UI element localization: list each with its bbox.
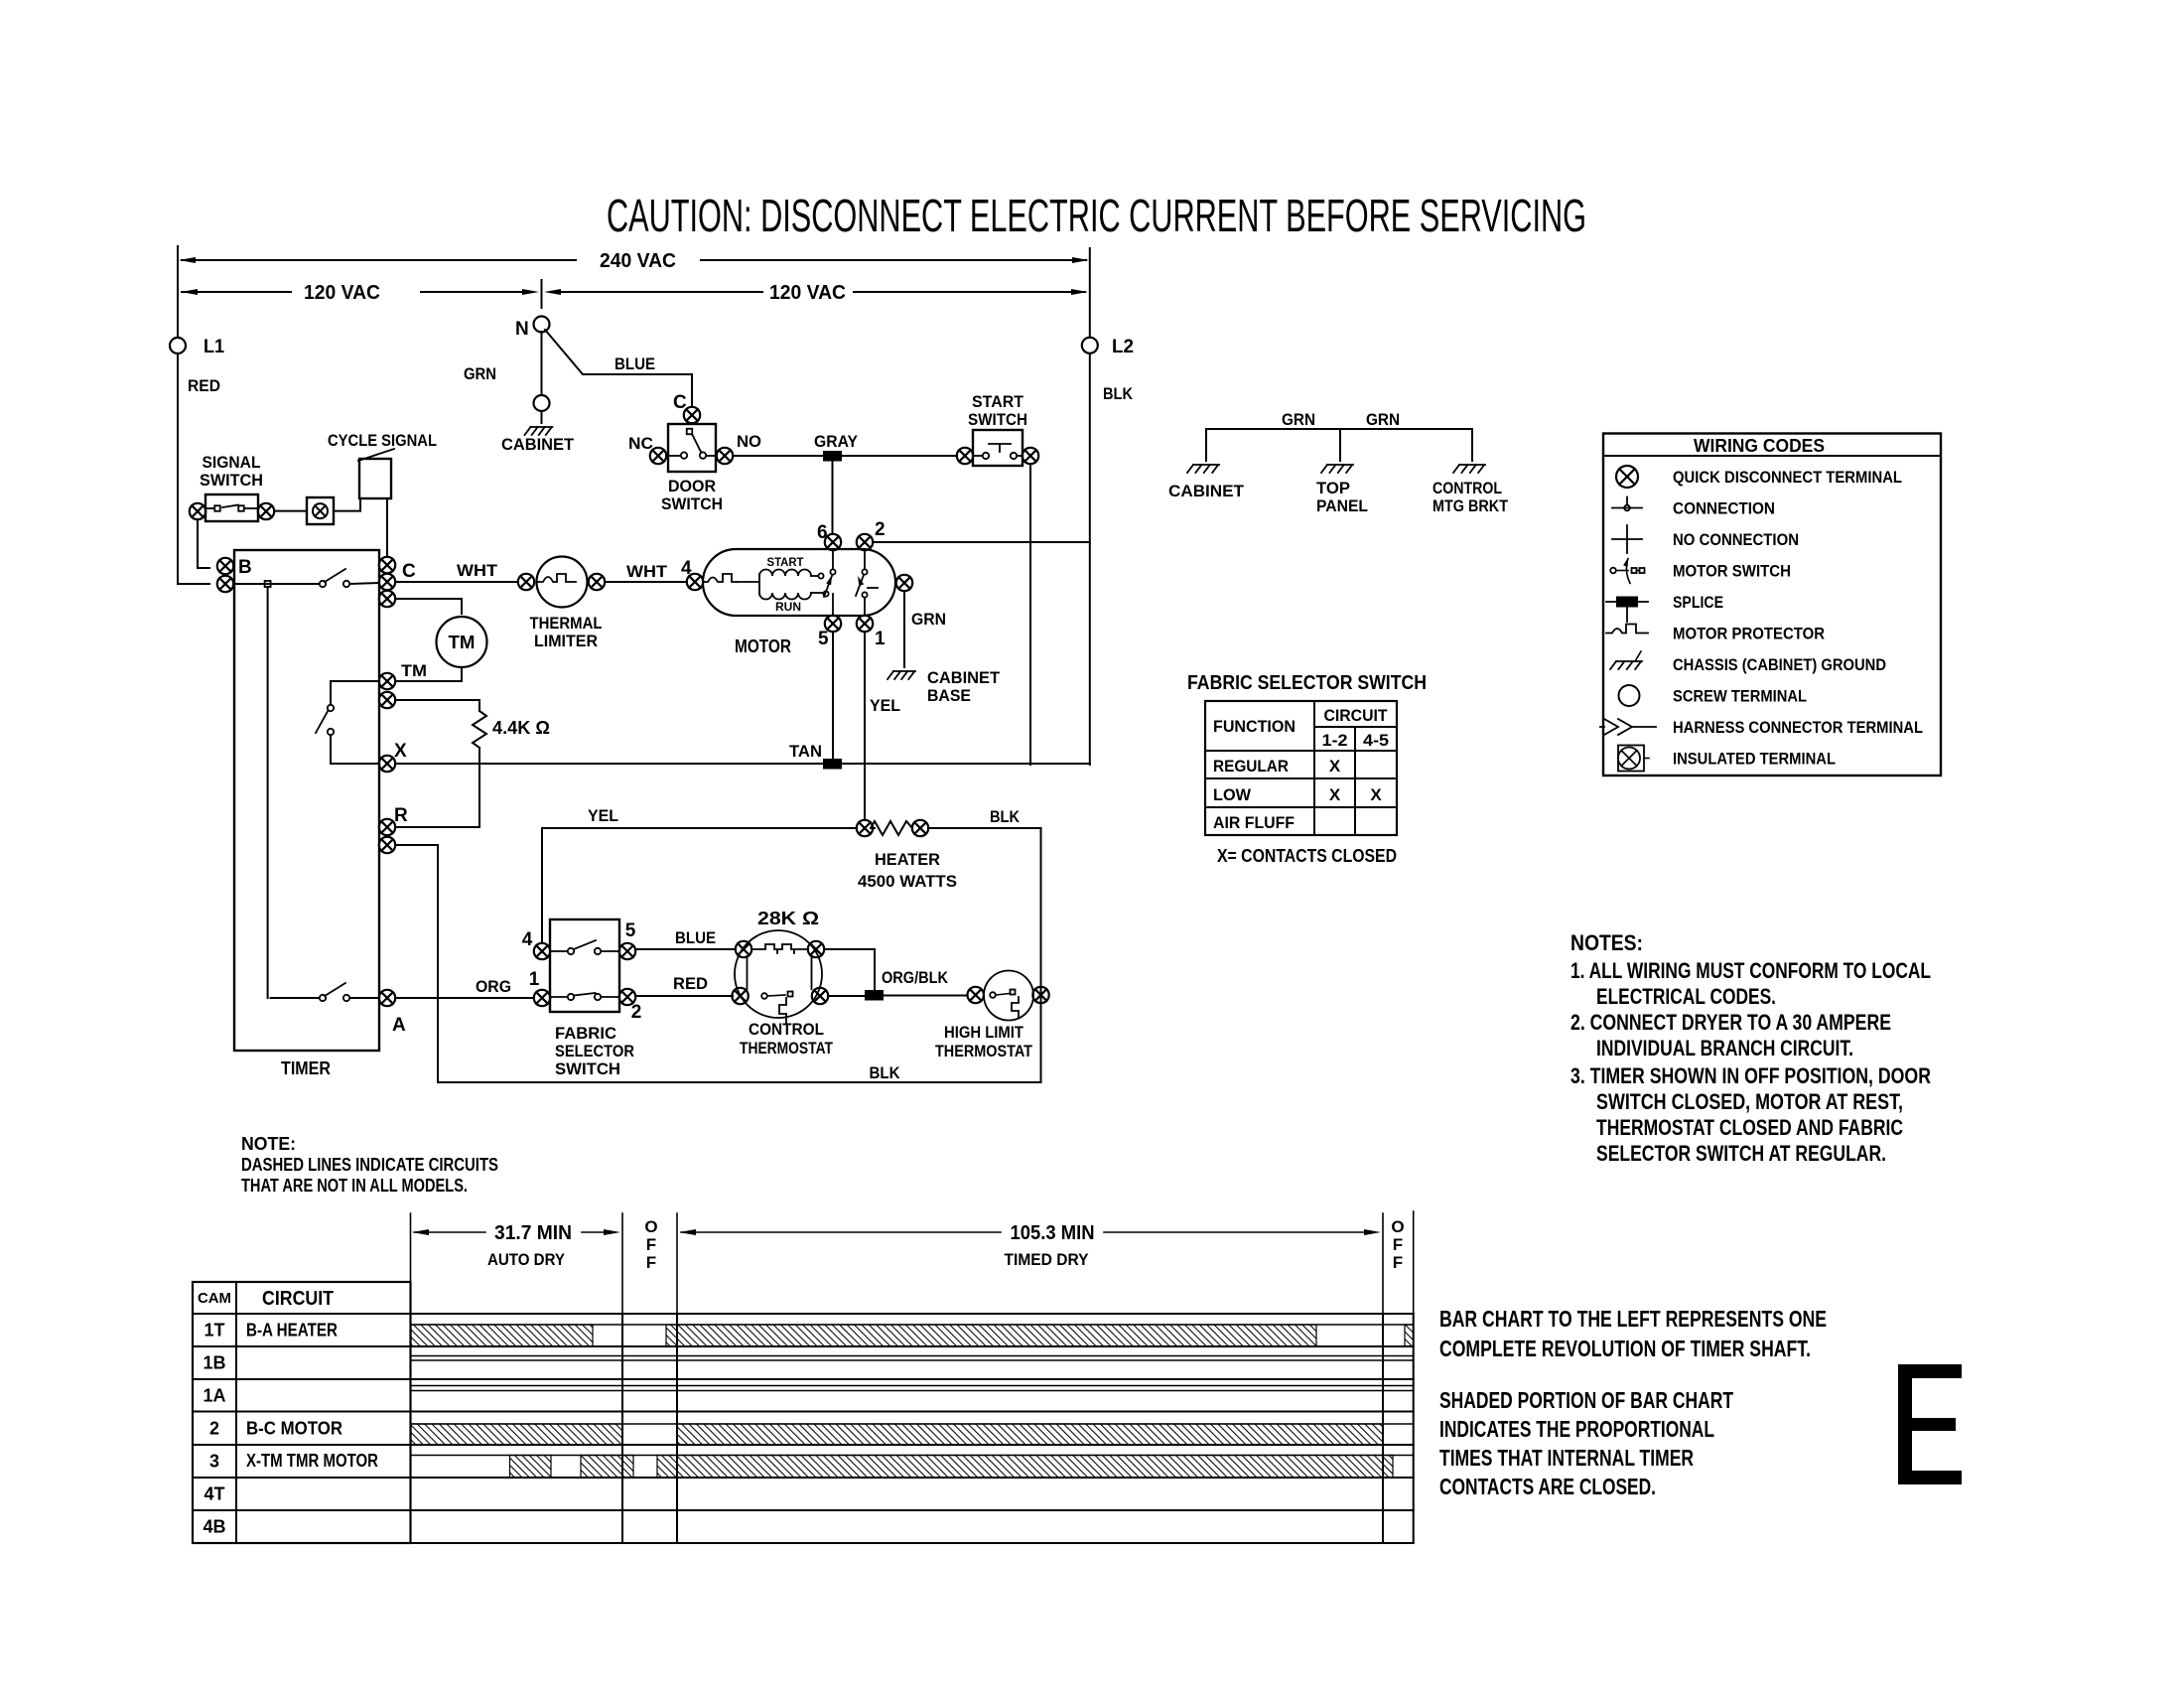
cabinet chassis ground xyxy=(501,411,575,454)
legend screw terminal xyxy=(1619,685,1808,706)
terminal B top xyxy=(217,558,233,574)
svg-text:PANEL: PANEL xyxy=(1316,496,1368,515)
wire YEL heater to fabric selector 4 xyxy=(542,806,857,943)
terminal C bottom xyxy=(379,591,395,607)
svg-text:SWITCH: SWITCH xyxy=(968,410,1027,429)
svg-text:CABINET: CABINET xyxy=(1168,482,1245,500)
legend no connection xyxy=(1612,525,1799,553)
svg-text:1T: 1T xyxy=(204,1321,224,1340)
wire signal switch to B xyxy=(198,519,209,568)
terminal motor 2 xyxy=(857,519,886,550)
svg-text:START: START xyxy=(767,555,805,569)
bar 2 motor lane xyxy=(411,1424,1414,1445)
terminal R top xyxy=(379,805,408,835)
svg-text:B: B xyxy=(238,557,252,578)
svg-text:MOTOR SWITCH: MOTOR SWITCH xyxy=(1673,562,1791,581)
terminal fabric 4 xyxy=(522,929,550,959)
wire heater to right BLK xyxy=(928,807,1041,828)
wire L2 to motor terminal 2 xyxy=(873,541,1090,543)
wire right vertical to high limit xyxy=(1040,828,1042,1082)
svg-text:HARNESS CONNECTOR TERMINAL: HARNESS CONNECTOR TERMINAL xyxy=(1673,718,1923,737)
svg-text:CAUTION: DISCONNECT ELECTRIC C: CAUTION: DISCONNECT ELECTRIC CURRENT BEF… xyxy=(607,190,1586,241)
svg-text:BLK: BLK xyxy=(1103,384,1134,403)
svg-text:O: O xyxy=(644,1217,657,1236)
terminal NO door switch xyxy=(717,432,761,464)
svg-text:5: 5 xyxy=(818,629,829,649)
splice GRAY xyxy=(823,451,842,462)
svg-text:L2: L2 xyxy=(1112,337,1134,357)
svg-text:CABINET: CABINET xyxy=(501,435,575,454)
terminal signal switch left xyxy=(190,503,205,519)
label OFF 2 xyxy=(1391,1217,1404,1272)
wire X to start switch and L2 TAN xyxy=(395,742,1090,764)
svg-text:5: 5 xyxy=(625,920,636,941)
svg-text:SPLICE: SPLICE xyxy=(1673,593,1723,612)
svg-text:TIMER: TIMER xyxy=(281,1058,331,1078)
terminal X xyxy=(379,741,407,772)
wire TM motor to TM terminal xyxy=(395,667,462,681)
fabric selector table xyxy=(1205,701,1397,835)
svg-text:LOW: LOW xyxy=(1213,785,1252,804)
svg-text:CABINET: CABINET xyxy=(927,668,1001,687)
svg-text:MTG BRKT: MTG BRKT xyxy=(1433,496,1509,515)
motor start winding xyxy=(759,555,811,576)
terminal fabric 1 xyxy=(529,969,550,1006)
timer box xyxy=(234,550,379,1051)
terminal control thermostat top left xyxy=(736,941,751,957)
terminal start switch left xyxy=(957,448,973,464)
cam table grid xyxy=(193,1282,1414,1543)
svg-text:THAT ARE NOT IN ALL MODELS.: THAT ARE NOT IN ALL MODELS. xyxy=(241,1176,468,1196)
terminal B bottom xyxy=(217,557,252,592)
svg-text:THERMOSTAT CLOSED AND FABRIC: THERMOSTAT CLOSED AND FABRIC xyxy=(1596,1115,1903,1140)
svg-text:RED: RED xyxy=(673,974,708,993)
terminal start switch right xyxy=(1023,448,1038,464)
terminal fabric 5 xyxy=(619,920,636,959)
svg-text:INSULATED TERMINAL: INSULATED TERMINAL xyxy=(1673,750,1836,769)
svg-text:THERMOSTAT: THERMOSTAT xyxy=(740,1039,833,1058)
svg-text:MOTOR PROTECTOR: MOTOR PROTECTOR xyxy=(1673,625,1825,643)
svg-text:CYCLE SIGNAL: CYCLE SIGNAL xyxy=(328,431,437,450)
wire timer B internal xyxy=(233,583,319,585)
svg-text:TM: TM xyxy=(401,661,427,680)
terminal thermal limiter left xyxy=(518,574,534,590)
svg-text:ELECTRICAL CODES.: ELECTRICAL CODES. xyxy=(1596,984,1776,1009)
svg-text:START: START xyxy=(972,392,1024,411)
legend motor protector xyxy=(1606,625,1825,643)
svg-text:1: 1 xyxy=(875,629,886,649)
105.3 MIN dimension xyxy=(679,1222,1381,1269)
svg-text:HEATER: HEATER xyxy=(875,850,940,869)
heater R2 4500W xyxy=(858,821,957,891)
svg-text:FABRIC: FABRIC xyxy=(555,1024,616,1043)
wire splice down to motor terminal 6 xyxy=(832,461,834,534)
svg-text:SWITCH CLOSED, MOTOR AT REST,: SWITCH CLOSED, MOTOR AT REST, xyxy=(1596,1089,1903,1114)
motor run winding xyxy=(737,574,811,614)
terminal high limit left xyxy=(968,987,984,1003)
svg-text:NO CONNECTION: NO CONNECTION xyxy=(1673,530,1799,549)
terminal L2 xyxy=(1082,337,1134,357)
wire C bottom to TM motor xyxy=(395,599,462,614)
bar 1T heater lane xyxy=(411,1325,1414,1346)
svg-text:SCREW TERMINAL: SCREW TERMINAL xyxy=(1673,687,1807,706)
svg-text:NC: NC xyxy=(628,434,653,453)
svg-text:BLUE: BLUE xyxy=(675,928,716,947)
svg-text:3: 3 xyxy=(209,1452,219,1472)
svg-text:CAM: CAM xyxy=(198,1290,231,1307)
terminal NC door switch xyxy=(628,434,666,464)
wire BLUE fabric 5 to control thermostat xyxy=(635,928,736,949)
wire motor 1 down to heater YEL xyxy=(865,632,900,820)
legend harness connector terminal xyxy=(1600,718,1923,737)
svg-text:INDIVIDUAL BRANCH CIRCUIT.: INDIVIDUAL BRANCH CIRCUIT. xyxy=(1596,1036,1853,1060)
svg-text:TIMED DRY: TIMED DRY xyxy=(1005,1250,1090,1269)
wire L1 vertical xyxy=(178,246,209,584)
ground control mtg brkt xyxy=(1433,429,1509,515)
svg-text:X-TM TMR MOTOR: X-TM TMR MOTOR xyxy=(246,1451,378,1471)
terminal C middle xyxy=(379,561,416,590)
wire NO to start switch GRAY xyxy=(733,432,957,456)
svg-text:4-5: 4-5 xyxy=(1363,731,1389,750)
svg-text:YEL: YEL xyxy=(588,806,618,825)
svg-text:2. CONNECT DRYER TO A 30 AMPER: 2. CONNECT DRYER TO A 30 AMPERE xyxy=(1570,1010,1891,1035)
svg-text:6: 6 xyxy=(817,522,828,543)
svg-text:AIR FLUFF: AIR FLUFF xyxy=(1213,813,1295,832)
wire GRN to cabinet base xyxy=(903,591,905,667)
node connection square timer xyxy=(265,581,271,587)
svg-text:SWITCH: SWITCH xyxy=(200,471,263,490)
svg-text:GRN: GRN xyxy=(464,364,496,383)
svg-text:TIMES THAT INTERNAL TIMER: TIMES THAT INTERNAL TIMER xyxy=(1439,1445,1694,1471)
svg-text:MOTOR: MOTOR xyxy=(735,636,791,656)
motor switch run xyxy=(811,591,833,616)
svg-text:SELECTOR SWITCH AT REGULAR.: SELECTOR SWITCH AT REGULAR. xyxy=(1596,1141,1886,1166)
svg-text:BLUE: BLUE xyxy=(614,354,655,373)
svg-text:4.4K Ω: 4.4K Ω xyxy=(492,718,550,738)
screw terminal cabinet xyxy=(534,395,550,411)
svg-text:RED: RED xyxy=(188,376,220,395)
svg-text:ORG: ORG xyxy=(476,977,511,996)
svg-text:A: A xyxy=(392,1015,406,1036)
terminal A xyxy=(379,990,406,1036)
svg-text:B-A HEATER: B-A HEATER xyxy=(246,1321,338,1340)
svg-text:BLK: BLK xyxy=(990,807,1021,826)
svg-text:CONTROL: CONTROL xyxy=(749,1020,824,1039)
ground top panel xyxy=(1316,429,1368,515)
signal switch S1 xyxy=(205,494,258,521)
svg-text:DOOR: DOOR xyxy=(668,477,716,495)
svg-text:SELECTOR: SELECTOR xyxy=(555,1042,634,1060)
svg-text:TOP: TOP xyxy=(1316,479,1350,497)
svg-text:CONNECTION: CONNECTION xyxy=(1673,499,1775,518)
240 VAC dimension line xyxy=(179,250,1089,272)
svg-text:BASE: BASE xyxy=(927,686,971,705)
terminal motor 5 xyxy=(818,616,841,649)
start switch S2 xyxy=(973,430,1023,466)
legend quick disconnect terminal xyxy=(1616,466,1902,488)
motor switch 2 xyxy=(856,550,878,616)
svg-text:X: X xyxy=(1329,785,1341,804)
svg-text:RUN: RUN xyxy=(775,600,801,614)
bar 1A lane xyxy=(411,1386,1414,1391)
svg-text:WHT: WHT xyxy=(626,562,668,581)
timer motor TM xyxy=(437,617,487,667)
svg-text:INDICATES THE PROPORTIONAL: INDICATES THE PROPORTIONAL xyxy=(1439,1416,1714,1442)
svg-text:AUTO DRY: AUTO DRY xyxy=(487,1250,566,1269)
thermal limiter xyxy=(530,557,603,651)
svg-text:SWITCH: SWITCH xyxy=(555,1059,620,1078)
svg-text:4500 WATTS: 4500 WATTS xyxy=(858,872,957,891)
svg-text:HIGH LIMIT: HIGH LIMIT xyxy=(944,1023,1024,1042)
legend splice xyxy=(1606,593,1723,622)
terminal C top xyxy=(379,557,395,573)
svg-text:1. ALL WIRING MUST CONFORM TO: 1. ALL WIRING MUST CONFORM TO LOCAL xyxy=(1570,958,1931,983)
svg-text:SHADED PORTION OF BAR CHART: SHADED PORTION OF BAR CHART xyxy=(1439,1387,1733,1413)
timer switch 2 X-TM xyxy=(316,681,379,764)
svg-text:R: R xyxy=(394,805,408,826)
svg-text:X: X xyxy=(1329,757,1341,776)
wire bottom BLK xyxy=(438,1063,1041,1082)
terminal control thermostat bottom left xyxy=(732,988,748,1004)
terminal C door switch xyxy=(673,392,700,423)
svg-text:2: 2 xyxy=(209,1419,219,1439)
terminal motor 6 xyxy=(817,522,841,550)
terminal thermal limiter right xyxy=(589,574,605,590)
svg-text:CONTROL: CONTROL xyxy=(1433,479,1502,497)
svg-text:CHASSIS (CABINET) GROUND: CHASSIS (CABINET) GROUND xyxy=(1673,655,1886,674)
svg-text:GRN: GRN xyxy=(1282,410,1315,429)
legend insulated terminal xyxy=(1618,746,1836,772)
svg-text:CONTACTS ARE CLOSED.: CONTACTS ARE CLOSED. xyxy=(1439,1474,1656,1499)
wire start switch down to X-TM net xyxy=(1029,464,1031,765)
terminal high limit right xyxy=(1032,987,1048,1003)
svg-text:NO: NO xyxy=(737,432,761,451)
svg-text:THERMAL: THERMAL xyxy=(530,614,603,633)
wire RED fabric 2 to control thermostat xyxy=(635,974,733,996)
svg-text:GRN: GRN xyxy=(911,610,946,629)
svg-text:WIRING CODES: WIRING CODES xyxy=(1694,436,1825,456)
svg-text:REGULAR: REGULAR xyxy=(1213,757,1289,776)
terminal R bottom xyxy=(379,837,395,853)
terminal motor 1 xyxy=(857,616,886,649)
svg-text:2: 2 xyxy=(875,519,886,540)
wire motor 5 down to TAN splice xyxy=(832,632,834,759)
control thermostat xyxy=(735,909,833,1058)
svg-text:ORG/BLK: ORG/BLK xyxy=(882,968,949,987)
svg-text:N: N xyxy=(515,319,529,340)
high limit thermostat xyxy=(935,971,1033,1061)
wire signal switch to insulated terminal xyxy=(274,510,307,512)
svg-text:FABRIC SELECTOR SWITCH: FABRIC SELECTOR SWITCH xyxy=(1187,672,1427,694)
svg-text:L1: L1 xyxy=(204,337,224,357)
svg-text:4: 4 xyxy=(522,929,533,950)
terminal fabric 2 xyxy=(619,989,641,1023)
wire GRN grounds bus xyxy=(1206,410,1472,429)
motor M1 outline xyxy=(703,549,895,616)
svg-text:1: 1 xyxy=(529,969,540,990)
svg-text:240 VAC: 240 VAC xyxy=(600,250,676,272)
terminal TM bottom xyxy=(379,692,395,708)
wire TM bottom to resistor xyxy=(395,699,479,701)
timer switch 3 B-A xyxy=(271,983,378,1001)
svg-text:4B: 4B xyxy=(203,1517,225,1537)
svg-text:1-2: 1-2 xyxy=(1322,731,1348,750)
door switch U3 xyxy=(668,424,716,472)
31.7 MIN dimension xyxy=(412,1222,620,1269)
svg-text:BAR CHART TO THE LEFT REPRESEN: BAR CHART TO THE LEFT REPRESENTS ONE xyxy=(1439,1306,1827,1332)
svg-text:LIMITER: LIMITER xyxy=(534,632,598,650)
wire insulated terminal to cycle signal xyxy=(334,498,360,511)
motor protector symbol xyxy=(703,574,737,582)
wire splice to high limit xyxy=(884,995,967,997)
wire ORG A to fabric selector xyxy=(395,977,534,998)
svg-text:F: F xyxy=(1393,1235,1403,1254)
svg-text:CIRCUIT: CIRCUIT xyxy=(1324,706,1389,725)
legend motor switch xyxy=(1610,558,1791,584)
notes text xyxy=(1570,930,1931,1166)
svg-text:BLK: BLK xyxy=(870,1063,901,1082)
fabric selector switch S3 xyxy=(550,919,619,1012)
svg-text:TAN: TAN xyxy=(789,742,822,761)
svg-text:X= CONTACTS CLOSED: X= CONTACTS CLOSED xyxy=(1217,846,1397,866)
terminal TM top xyxy=(379,661,427,689)
terminal motor 4 xyxy=(687,574,703,590)
timer switch 1 B-C xyxy=(320,569,378,587)
wire L2 vertical BLK xyxy=(1089,248,1091,765)
svg-text:COMPLETE REVOLUTION OF TIMER S: COMPLETE REVOLUTION OF TIMER SHAFT. xyxy=(1439,1336,1811,1361)
svg-text:QUICK DISCONNECT TERMINAL: QUICK DISCONNECT TERMINAL xyxy=(1673,468,1902,487)
svg-text:3. TIMER SHOWN IN OFF POSITION: 3. TIMER SHOWN IN OFF POSITION, DOOR xyxy=(1570,1063,1931,1088)
splice ORG/BLK xyxy=(865,990,884,1001)
svg-text:DASHED LINES INDICATE CIRCUITS: DASHED LINES INDICATE CIRCUITS xyxy=(241,1155,498,1175)
svg-text:FUNCTION: FUNCTION xyxy=(1213,717,1296,736)
svg-text:F: F xyxy=(1393,1253,1403,1272)
svg-text:C: C xyxy=(673,392,687,413)
resistor 4.4K xyxy=(473,700,550,827)
svg-text:F: F xyxy=(646,1253,656,1272)
svg-text:X: X xyxy=(1370,785,1382,804)
wire timer internal vertical xyxy=(267,587,269,998)
svg-text:31.7 MIN: 31.7 MIN xyxy=(494,1222,572,1244)
svg-text:NOTE:: NOTE: xyxy=(241,1134,296,1154)
terminal control thermostat top right xyxy=(808,941,824,957)
terminal heater left xyxy=(857,820,873,836)
ground cabinet xyxy=(1168,429,1245,500)
svg-text:WHT: WHT xyxy=(457,561,498,580)
svg-text:105.3 MIN: 105.3 MIN xyxy=(1011,1222,1095,1244)
svg-text:120 VAC: 120 VAC xyxy=(769,282,846,304)
wire C to thermal limiter WHT xyxy=(395,561,518,582)
legend chassis ground xyxy=(1610,651,1886,674)
wire N to cabinet ground GRN xyxy=(541,332,543,395)
svg-text:TM: TM xyxy=(449,633,476,652)
legend connection xyxy=(1612,497,1775,518)
cabinet base ground xyxy=(887,668,1001,705)
terminal N xyxy=(515,317,550,341)
svg-text:1A: 1A xyxy=(203,1386,225,1406)
terminal motor GRN xyxy=(896,575,946,629)
svg-text:X: X xyxy=(394,741,407,762)
wire BLUE N to door switch C xyxy=(545,330,692,407)
splice TAN xyxy=(823,759,842,770)
terminal signal switch right xyxy=(258,503,274,519)
insulated terminal xyxy=(307,497,334,524)
svg-text:YEL: YEL xyxy=(870,696,900,715)
wire control thermostat to ORG/BLK splice xyxy=(824,949,949,996)
node N center tick xyxy=(541,280,543,308)
wire thermal limiter to motor WHT xyxy=(605,558,692,582)
label FABRIC SELECTOR SWITCH xyxy=(555,1024,634,1078)
svg-text:C: C xyxy=(402,561,416,582)
svg-text:SWITCH: SWITCH xyxy=(661,494,723,513)
svg-text:O: O xyxy=(1391,1217,1404,1236)
svg-text:GRN: GRN xyxy=(1366,410,1400,429)
bar chart description text xyxy=(1439,1306,1827,1499)
label DOOR SWITCH xyxy=(661,477,723,513)
wire R top to resistor bottom xyxy=(395,826,479,828)
wire cycle signal down to C xyxy=(386,498,388,557)
svg-text:GRAY: GRAY xyxy=(814,432,859,451)
svg-text:4T: 4T xyxy=(204,1484,224,1504)
svg-text:B-C MOTOR: B-C MOTOR xyxy=(246,1419,342,1439)
revision letter E xyxy=(1898,1364,1962,1484)
120 VAC left dimension xyxy=(181,282,539,304)
bar chart dimension verticals xyxy=(411,1211,1414,1314)
note dashed lines xyxy=(241,1134,498,1196)
bar 1B lane xyxy=(411,1356,1414,1361)
svg-text:2: 2 xyxy=(631,1002,642,1023)
terminal heater right xyxy=(912,820,928,836)
cam table labels xyxy=(198,1288,378,1537)
svg-text:28K Ω: 28K Ω xyxy=(757,909,819,928)
svg-text:SIGNAL: SIGNAL xyxy=(203,453,261,472)
terminal control thermostat bottom right xyxy=(812,988,828,1004)
cycle signal device xyxy=(328,431,437,498)
motor switch start xyxy=(811,550,836,597)
wiring codes legend box xyxy=(1603,434,1941,776)
svg-text:CIRCUIT: CIRCUIT xyxy=(262,1288,334,1310)
wire R bottom down xyxy=(395,845,438,1082)
svg-text:1B: 1B xyxy=(203,1353,225,1373)
svg-text:NOTES:: NOTES: xyxy=(1570,930,1643,955)
bar 3 timer motor lane xyxy=(411,1456,1414,1479)
label OFF 1 xyxy=(644,1217,657,1272)
svg-text:120 VAC: 120 VAC xyxy=(304,282,380,304)
svg-text:F: F xyxy=(646,1235,656,1254)
svg-text:THERMOSTAT: THERMOSTAT xyxy=(935,1042,1033,1060)
terminal L1 xyxy=(170,337,224,357)
120 VAC right dimension xyxy=(544,282,1088,304)
